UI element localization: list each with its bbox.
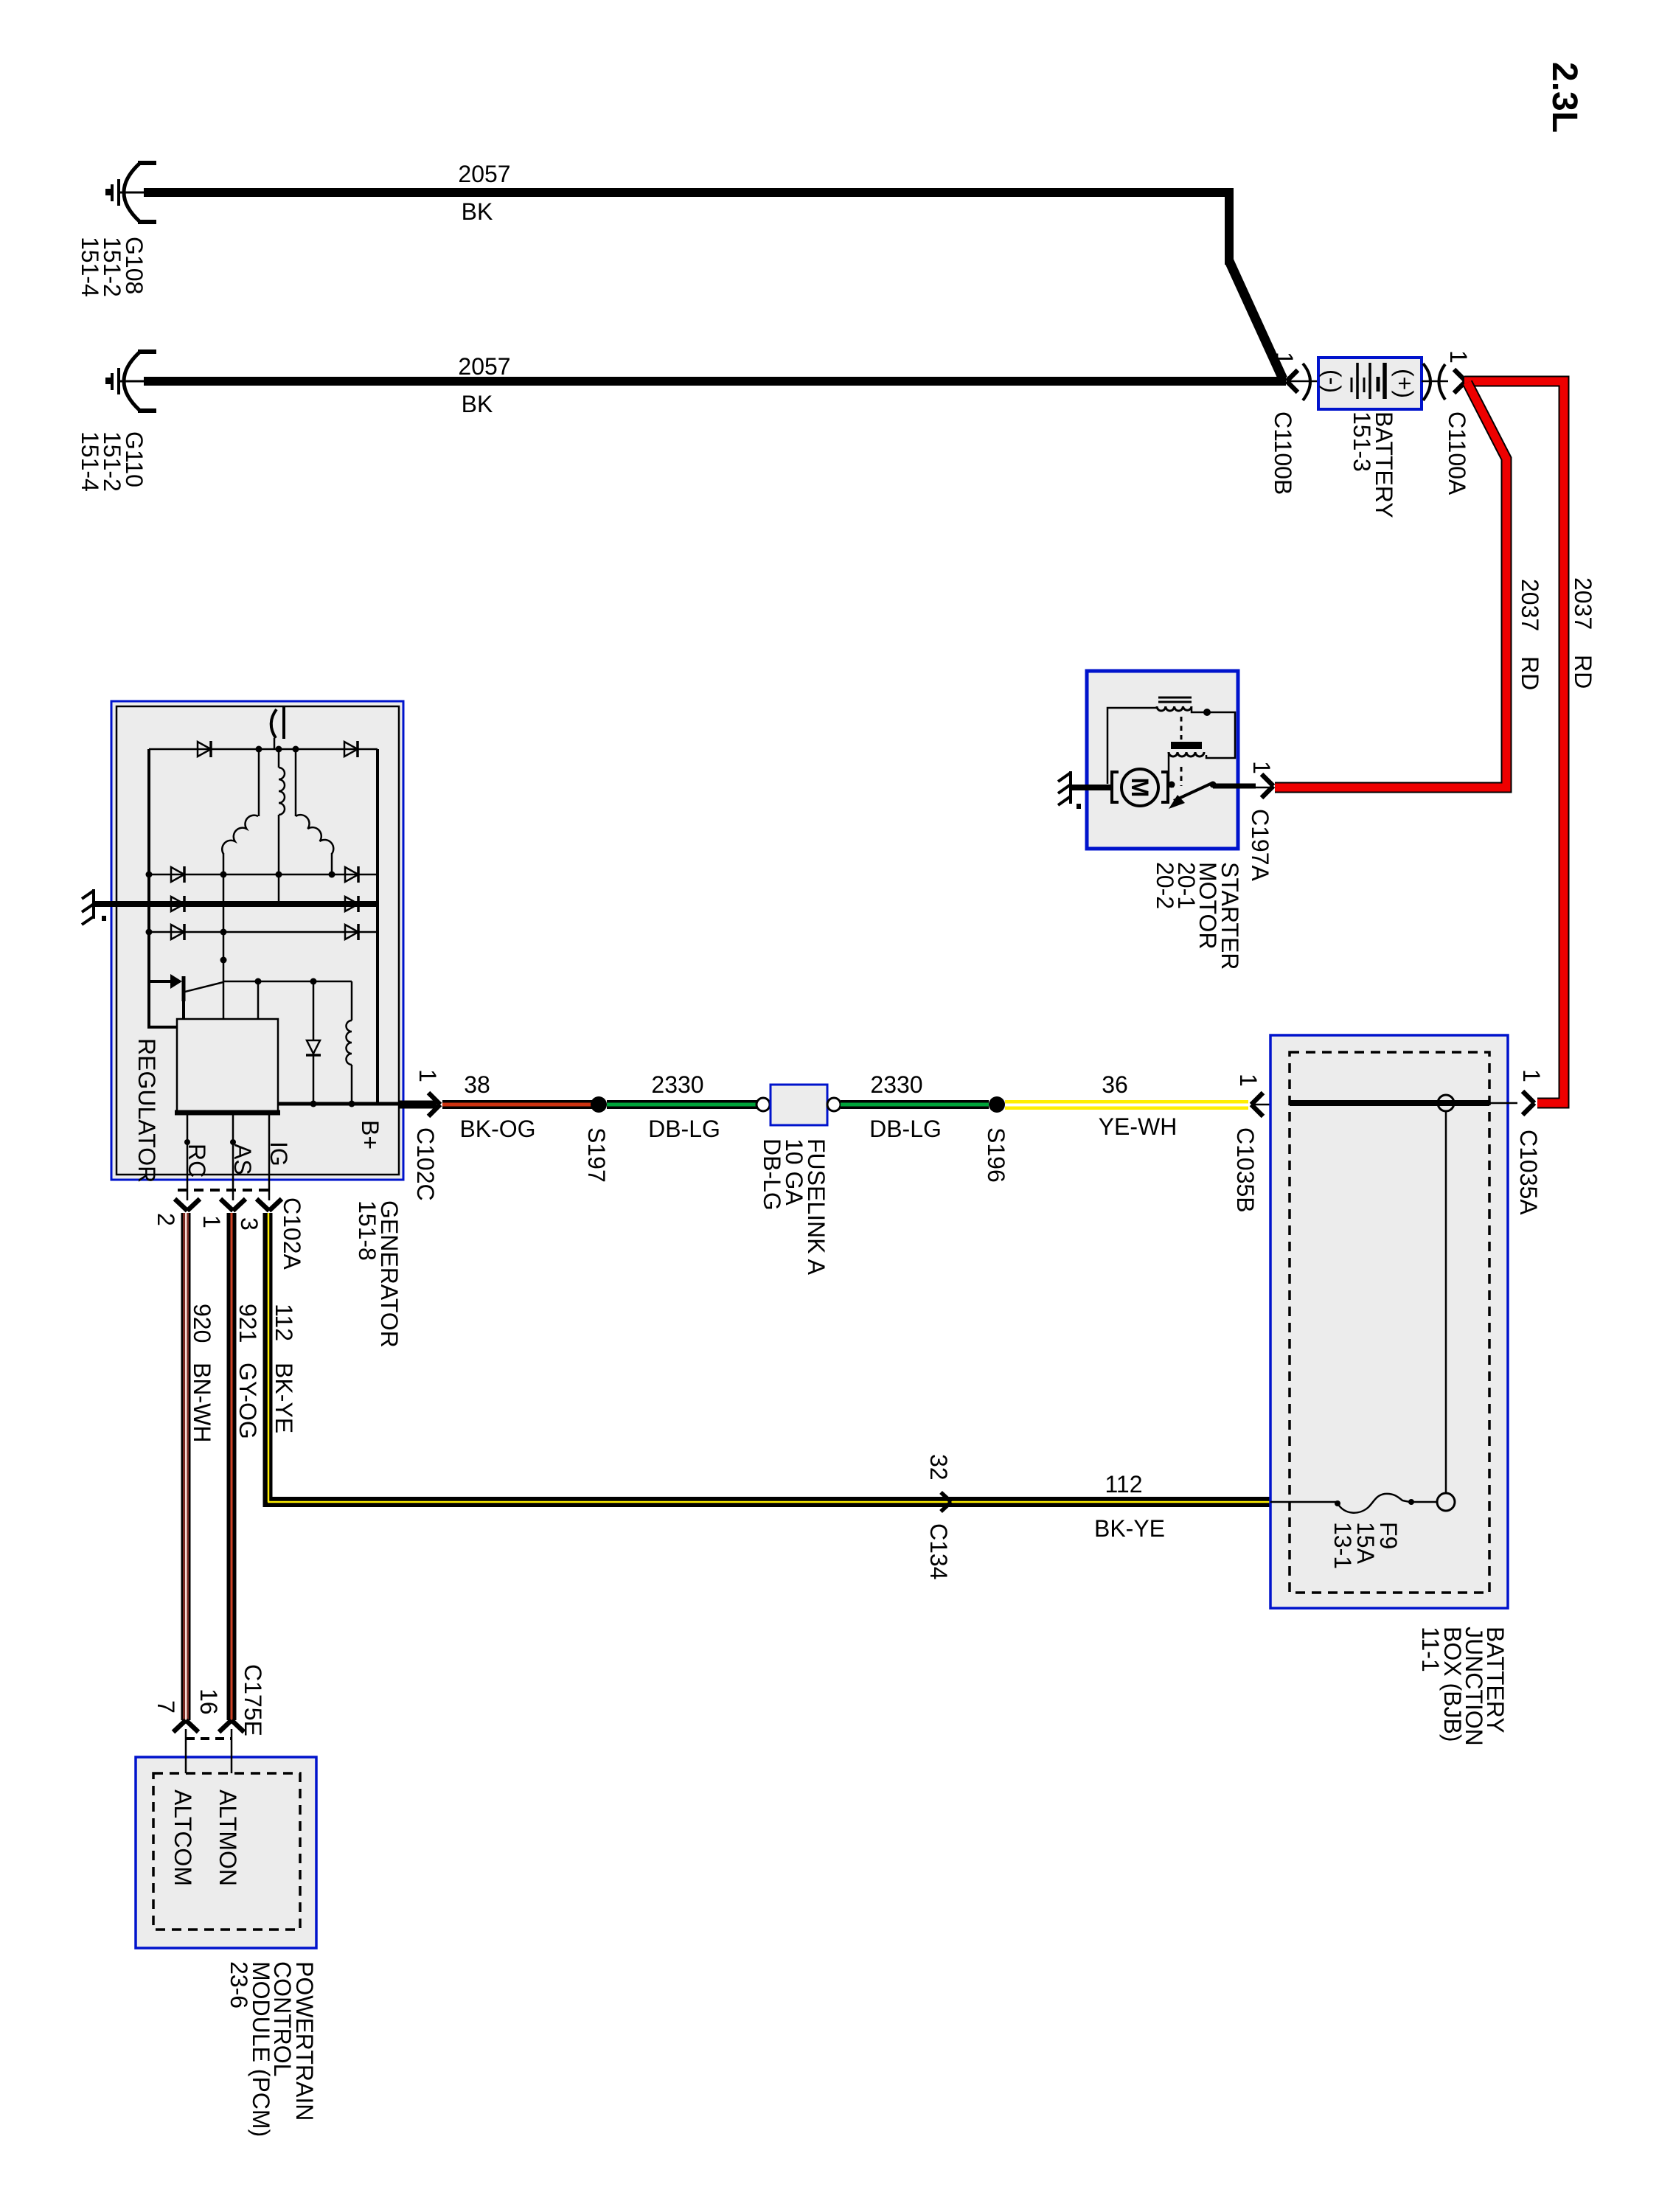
ground G110: [112, 352, 156, 411]
wire 36 YE-WH: [1005, 1100, 1248, 1110]
stator windings: [258, 749, 260, 816]
svg-text:RC: RC: [184, 1144, 210, 1178]
svg-text:2: 2: [153, 1213, 179, 1226]
svg-text:YE-WH: YE-WH: [1099, 1113, 1178, 1140]
fuse F9 15A: [1270, 1501, 1336, 1503]
connector C134: [941, 1492, 951, 1512]
svg-text:C1100B: C1100B: [1270, 411, 1296, 495]
svg-text:BK-OG: BK-OG: [459, 1116, 535, 1142]
svg-text:1: 1: [1518, 1069, 1545, 1082]
wire motor to switch: [1168, 783, 1174, 787]
svg-text:920: 920: [189, 1304, 215, 1343]
svg-text:2037: 2037: [1570, 577, 1596, 630]
node S197: [591, 1096, 607, 1113]
svg-text:151-8: 151-8: [354, 1200, 380, 1261]
battery junction box: [1270, 1035, 1508, 1608]
svg-text:BK-YE: BK-YE: [1094, 1515, 1165, 1542]
diode D7: [171, 924, 184, 940]
connector C1035B: [1251, 1093, 1263, 1116]
generator rails: [149, 748, 378, 751]
svg-text:C197A: C197A: [1247, 809, 1273, 882]
svg-text:C102C: C102C: [412, 1127, 439, 1201]
battery: [1318, 358, 1422, 409]
ground G108: [112, 163, 156, 222]
wire 2037 RD (battery to starter, inner): [1275, 383, 1506, 787]
svg-text:11-1: 11-1: [1417, 1627, 1444, 1672]
diode D8: [345, 924, 358, 940]
svg-text:DB-LG: DB-LG: [759, 1138, 785, 1211]
svg-text:C134: C134: [925, 1523, 952, 1580]
svg-text:2037: 2037: [1517, 579, 1543, 631]
connector C175E: [173, 1720, 198, 1732]
svg-text:38: 38: [464, 1071, 490, 1098]
svg-text:S196: S196: [983, 1127, 1009, 1183]
connector C1100A: [1422, 364, 1466, 400]
diode D4: [345, 866, 358, 883]
solenoid coil 2: [1169, 752, 1204, 757]
wire coil1 right lead to hold coil: [1192, 708, 1235, 758]
svg-text:3: 3: [236, 1217, 262, 1231]
svg-text:RD: RD: [1570, 655, 1596, 689]
svg-text:BN-WH: BN-WH: [189, 1363, 215, 1442]
wire coil1 left lead: [1107, 708, 1157, 784]
pins RC AS IG: [187, 1113, 189, 1200]
svg-text:GY-OG: GY-OG: [234, 1363, 261, 1439]
switch: [1174, 783, 1212, 801]
svg-text:IG: IG: [265, 1141, 292, 1166]
svg-text:REGULATOR: REGULATOR: [133, 1038, 160, 1183]
svg-text:112: 112: [1105, 1471, 1142, 1498]
svg-text:1: 1: [1248, 761, 1275, 774]
svg-text:RD: RD: [1517, 656, 1543, 690]
diode D1: [198, 741, 211, 757]
regulator box: [177, 1019, 278, 1112]
svg-text:C1035B: C1035B: [1232, 1127, 1259, 1213]
svg-text:C102A: C102A: [279, 1197, 305, 1270]
wire 38 BK-OG: [442, 1100, 597, 1109]
svg-text:C1035A: C1035A: [1515, 1130, 1542, 1215]
wire ground to starter motor: [1071, 785, 1113, 790]
transistor Q1: [149, 980, 172, 983]
starter motor box: [1087, 671, 1238, 849]
solenoid coil 1: [1157, 706, 1192, 711]
solenoid plunger: [1180, 717, 1183, 740]
svg-text:C175E: C175E: [240, 1664, 266, 1736]
connector C102A: [178, 1189, 274, 1192]
field coil L1: [351, 981, 353, 1020]
diode D5: [171, 896, 184, 912]
wire 2330 DB-LG (left): [607, 1100, 758, 1109]
ground (starter): [1058, 771, 1071, 805]
svg-text:23-6: 23-6: [226, 1961, 252, 2008]
svg-text:151-3: 151-3: [1349, 411, 1375, 472]
wire rail4 to regulator: [223, 874, 225, 1019]
svg-text:BK-YE: BK-YE: [271, 1363, 297, 1433]
motor M: [1112, 772, 1119, 802]
wire 920 BN-WH: [181, 1213, 191, 1720]
svg-text:ALTMON: ALTMON: [215, 1790, 241, 1886]
generator box: [111, 701, 403, 1180]
svg-text:2057: 2057: [458, 161, 510, 187]
svg-text:AS: AS: [229, 1144, 256, 1175]
svg-text:1: 1: [1271, 352, 1298, 365]
svg-text:1: 1: [198, 1215, 225, 1228]
wire BJB bus: [1290, 1100, 1489, 1106]
svg-text:151-4: 151-4: [77, 237, 103, 297]
svg-text:ALTCOM: ALTCOM: [170, 1790, 196, 1886]
wire field bus: [223, 981, 352, 983]
svg-text:BK: BK: [462, 198, 493, 225]
svg-text:(+): (+): [1391, 369, 1418, 398]
svg-text:7: 7: [153, 1700, 179, 1714]
svg-text:2330: 2330: [651, 1071, 703, 1098]
svg-text:DB-LG: DB-LG: [648, 1116, 720, 1142]
diode D3: [171, 866, 184, 883]
diode D6: [345, 896, 358, 912]
svg-text:2330: 2330: [870, 1071, 922, 1098]
diode D2: [344, 741, 358, 757]
wire to C197A: [1213, 784, 1256, 789]
wire 112 BK-YE: [263, 1213, 273, 1502]
svg-text:151-4: 151-4: [77, 431, 103, 492]
node S196: [989, 1096, 1005, 1113]
svg-text:(-): (-): [1319, 369, 1346, 393]
connector C1100B: [1287, 364, 1325, 400]
svg-text:C1100A: C1100A: [1444, 411, 1470, 495]
svg-text:M: M: [1127, 778, 1153, 798]
svg-text:DB-LG: DB-LG: [869, 1116, 942, 1142]
wire 921 GY-OG: [227, 1213, 237, 1720]
diode D9 (flyback): [313, 981, 315, 1040]
connector C102C: [428, 1093, 440, 1116]
powertrain control module box: [136, 1757, 316, 1948]
svg-text:B+: B+: [357, 1120, 383, 1150]
svg-text:32: 32: [925, 1454, 952, 1481]
wire 2037 RD (battery to BJB, outer): [1464, 381, 1564, 1103]
fuselink A: [757, 1098, 770, 1111]
svg-text:20-2: 20-2: [1152, 862, 1178, 909]
svg-text:36: 36: [1102, 1071, 1128, 1098]
svg-text:2057: 2057: [458, 353, 510, 380]
connector C1035A: [1523, 1091, 1534, 1115]
wire 2057 BK (G110 to battery): [144, 377, 1286, 386]
wire 2057 BK (G108 to battery): [144, 188, 1234, 197]
svg-text:2.3L: 2.3L: [1545, 62, 1584, 133]
capacitor (generator): [271, 709, 276, 738]
svg-text:16: 16: [195, 1688, 222, 1715]
svg-text:S197: S197: [583, 1127, 610, 1183]
svg-text:1: 1: [414, 1069, 441, 1082]
wire 2330 DB-LG (right): [841, 1100, 989, 1109]
wire B+ output: [278, 1102, 399, 1106]
svg-text:112: 112: [271, 1304, 297, 1341]
svg-text:1: 1: [1235, 1074, 1262, 1087]
solenoid core: [1158, 698, 1192, 702]
svg-text:1: 1: [1445, 350, 1472, 364]
svg-text:13-1: 13-1: [1329, 1522, 1356, 1569]
ground (generator): [82, 889, 94, 925]
svg-text:921: 921: [234, 1304, 261, 1343]
svg-text:BK: BK: [462, 391, 493, 417]
